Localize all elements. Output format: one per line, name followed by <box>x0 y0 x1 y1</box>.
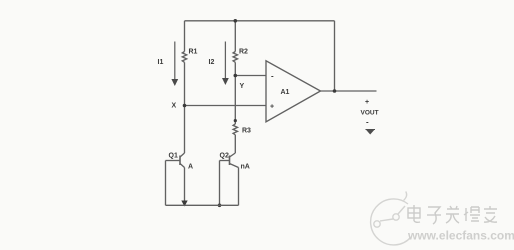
current arrow I1 <box>171 42 178 87</box>
wire branch2 vertical upper <box>234 21 236 52</box>
current arrow I2 <box>222 42 229 86</box>
transistor Q1 <box>166 153 185 205</box>
svg-text:X: X <box>172 103 177 110</box>
svg-text:Y: Y <box>240 83 245 90</box>
watermark logo circle <box>371 192 411 245</box>
svg-text:VOUT: VOUT <box>361 110 379 117</box>
wire branch2 vertical middle <box>234 62 236 124</box>
svg-text:+: + <box>365 99 369 106</box>
svg-text:Q2: Q2 <box>220 153 229 160</box>
wire branch2 vertical lower <box>234 135 236 153</box>
wire feedback vertical <box>334 21 336 91</box>
svg-text:A1: A1 <box>281 89 290 96</box>
wire branch1 vertical lower <box>184 62 186 153</box>
watermark text 电子发烧友 <box>408 205 497 224</box>
svg-text:R3: R3 <box>242 128 251 135</box>
resistor R2 <box>233 52 237 63</box>
op-amp A1 <box>266 61 321 122</box>
svg-text:I2: I2 <box>209 59 215 66</box>
resistor R3 <box>233 124 237 135</box>
transistor Q1 emitter arrowhead <box>181 201 187 207</box>
svg-text:R2: R2 <box>239 49 248 56</box>
svg-text:+: + <box>270 104 274 111</box>
wire bottom rail <box>166 204 239 206</box>
svg-text:-: - <box>366 118 369 127</box>
node X junction dot <box>183 104 187 108</box>
wire top rail <box>185 20 335 22</box>
wire branch1 vertical upper <box>184 21 186 52</box>
resistor R1 <box>182 52 186 63</box>
svg-text:I1: I1 <box>158 59 164 66</box>
wires <box>182 21 376 153</box>
svg-text:A: A <box>188 164 193 171</box>
junction dot feedback / output <box>333 89 337 93</box>
ground symbol <box>366 130 376 134</box>
wire op-amp output <box>321 90 377 92</box>
junction dot above R3 <box>234 119 237 122</box>
node Y junction dot <box>234 74 238 78</box>
svg-text:R1: R1 <box>189 49 198 56</box>
wire node Y to inverting input <box>235 75 266 77</box>
svg-text:nA: nA <box>241 164 250 171</box>
svg-text:-: - <box>271 72 274 81</box>
junction dot Q2 base wire / bottom rail <box>218 204 222 208</box>
svg-text:www.elecfans.com: www.elecfans.com <box>407 229 514 243</box>
svg-text:Q1: Q1 <box>169 153 178 160</box>
transistor Q2 <box>220 153 239 205</box>
wire node X to non-inverting input <box>185 105 267 107</box>
junction dot top rail / branch2 <box>234 19 238 23</box>
